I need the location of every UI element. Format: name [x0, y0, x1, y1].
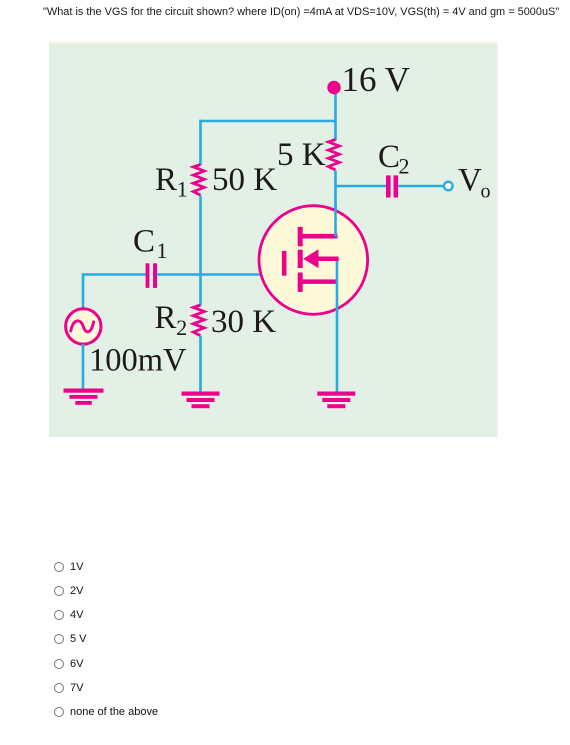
MOSFET Q1 gate bar	[282, 251, 287, 276]
wire: supply vertical 16V dot to 5K top	[334, 86, 337, 141]
MOSFET Q1 body arrow	[303, 249, 318, 268]
question title	[43, 6, 559, 18]
wire: drain vertical inside circle	[334, 204, 337, 237]
wire: drain output branch to C2	[334, 185, 386, 188]
label: C1	[133, 223, 168, 263]
circuit panel background	[49, 42, 498, 438]
resistor RD 5K zigzag	[328, 140, 339, 171]
label: Vo	[458, 163, 491, 203]
label: R1	[155, 162, 188, 202]
ground under R2	[182, 392, 220, 409]
wire: 5K bottom to drain bar (through branch node)	[334, 171, 337, 237]
answer option none of the above	[54, 706, 158, 718]
label: 5 K	[277, 137, 326, 173]
label: C2	[378, 139, 410, 179]
node: 16 V supply dot	[327, 81, 340, 94]
AC source V1 circle	[66, 309, 101, 344]
resistor R2 zigzag	[193, 305, 204, 336]
wire: gate wire C1 to MOSFET gate	[157, 273, 284, 276]
ground under AC source	[64, 389, 104, 405]
ground under source	[317, 392, 355, 409]
MOSFET Q1 channel top segment	[298, 227, 303, 246]
wire: top horizontal from R1 to supply	[199, 120, 337, 123]
label: R2	[154, 300, 187, 340]
capacitor C1	[146, 263, 157, 288]
label: 50 K	[212, 162, 277, 198]
svg-text:C: C	[378, 139, 400, 175]
svg-text:2: 2	[399, 154, 410, 179]
svg-text:100mV: 100mV	[89, 342, 187, 378]
answer option 4V	[54, 609, 83, 621]
answer option 5 V	[54, 633, 87, 645]
wire: AC source top lead	[82, 273, 85, 310]
label: 100mV	[89, 342, 187, 378]
MOSFET Q1 body circle	[259, 206, 368, 315]
svg-text:2: 2	[176, 315, 187, 340]
svg-text:16 V: 16 V	[342, 60, 410, 99]
svg-text:5 K: 5 K	[277, 137, 326, 173]
svg-text:o: o	[481, 181, 491, 203]
MOSFET Q1 channel middle segment	[298, 250, 303, 268]
answer option 1V	[54, 561, 83, 573]
label: 16 V	[342, 60, 410, 99]
MOSFET Q1 channel bottom segment	[298, 273, 303, 292]
wire: source vertical from body junction to ground	[336, 258, 339, 392]
capacitor C2	[386, 175, 398, 197]
svg-text:1: 1	[157, 238, 168, 263]
svg-text:R: R	[155, 162, 177, 198]
answer option 6V	[54, 658, 83, 670]
wire: C2 to output terminal	[398, 185, 443, 188]
svg-text:1: 1	[177, 177, 188, 202]
answer option 2V	[54, 585, 83, 597]
MOSFET Q1 drain lead	[300, 234, 338, 239]
wire: AC source bottom lead	[82, 344, 85, 390]
node: Vo open terminal	[444, 182, 453, 191]
wire: R2 bottom to ground	[199, 336, 202, 393]
label: 30 K	[211, 304, 276, 340]
wire: R1 bottom to R2 top (through gate node)	[199, 196, 202, 306]
svg-text:30 K: 30 K	[211, 304, 276, 340]
AC source sine symbol	[71, 321, 94, 332]
answer option 7V	[54, 682, 83, 694]
wire: R1 top vertical	[199, 120, 202, 165]
MOSFET Q1 body lead	[317, 257, 339, 262]
resistor R1 zigzag	[193, 165, 204, 196]
MOSFET Q1 source lead	[300, 279, 338, 284]
wire: input horizontal gate wire left of C1	[83, 273, 146, 276]
svg-text:50 K: 50 K	[212, 162, 277, 198]
svg-text:R: R	[154, 300, 176, 336]
svg-text:V: V	[458, 163, 482, 199]
svg-text:C: C	[133, 223, 155, 259]
